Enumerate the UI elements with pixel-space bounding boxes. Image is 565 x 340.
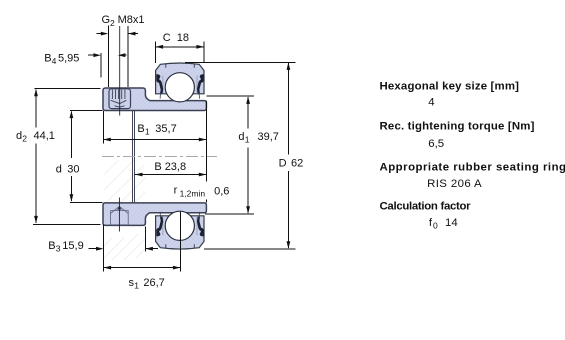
- svg-text:23,8: 23,8: [165, 161, 186, 173]
- svg-text:d: d: [16, 130, 22, 142]
- svg-text:26,7: 26,7: [143, 277, 164, 289]
- svg-text:2: 2: [110, 18, 115, 28]
- svg-text:35,7: 35,7: [155, 123, 176, 135]
- svg-text:44,1: 44,1: [34, 130, 55, 142]
- svg-text:d: d: [56, 163, 62, 175]
- svg-text:RIS 206 A: RIS 206 A: [427, 178, 482, 190]
- svg-text:B: B: [137, 123, 144, 135]
- svg-text:Rec. tightening torque [Nm]: Rec. tightening torque [Nm]: [380, 120, 535, 132]
- svg-text:62: 62: [291, 158, 303, 170]
- svg-text:0,6: 0,6: [214, 186, 229, 198]
- svg-text:d: d: [238, 131, 244, 143]
- svg-text:1,2min: 1,2min: [180, 188, 206, 198]
- svg-text:3: 3: [56, 243, 61, 253]
- svg-text:39,7: 39,7: [258, 131, 279, 143]
- svg-text:B: B: [154, 161, 161, 173]
- svg-text:B: B: [48, 240, 55, 252]
- svg-text:M8x1: M8x1: [118, 14, 145, 26]
- svg-text:0: 0: [433, 220, 438, 230]
- svg-text:15,9: 15,9: [62, 240, 83, 252]
- svg-text:1: 1: [145, 127, 150, 137]
- svg-text:1: 1: [245, 135, 250, 145]
- svg-text:Hexagonal key size [mm]: Hexagonal key size [mm]: [380, 80, 520, 92]
- svg-text:5,95: 5,95: [58, 52, 79, 64]
- svg-text:r: r: [174, 185, 178, 197]
- svg-text:6,5: 6,5: [428, 138, 444, 150]
- svg-text:2: 2: [22, 134, 27, 144]
- svg-text:G: G: [102, 14, 111, 26]
- svg-text:B: B: [44, 52, 51, 64]
- svg-text:18: 18: [177, 32, 189, 44]
- svg-text:30: 30: [67, 163, 79, 175]
- svg-text:Calculation factor: Calculation factor: [380, 201, 472, 213]
- svg-text:4: 4: [52, 56, 57, 66]
- svg-text:D: D: [279, 158, 287, 170]
- svg-text:1: 1: [134, 280, 139, 290]
- svg-text:14: 14: [445, 217, 458, 229]
- svg-text:4: 4: [428, 96, 434, 108]
- svg-text:C: C: [163, 32, 171, 44]
- svg-text:Appropriate rubber seating rin: Appropriate rubber seating ring: [380, 162, 565, 174]
